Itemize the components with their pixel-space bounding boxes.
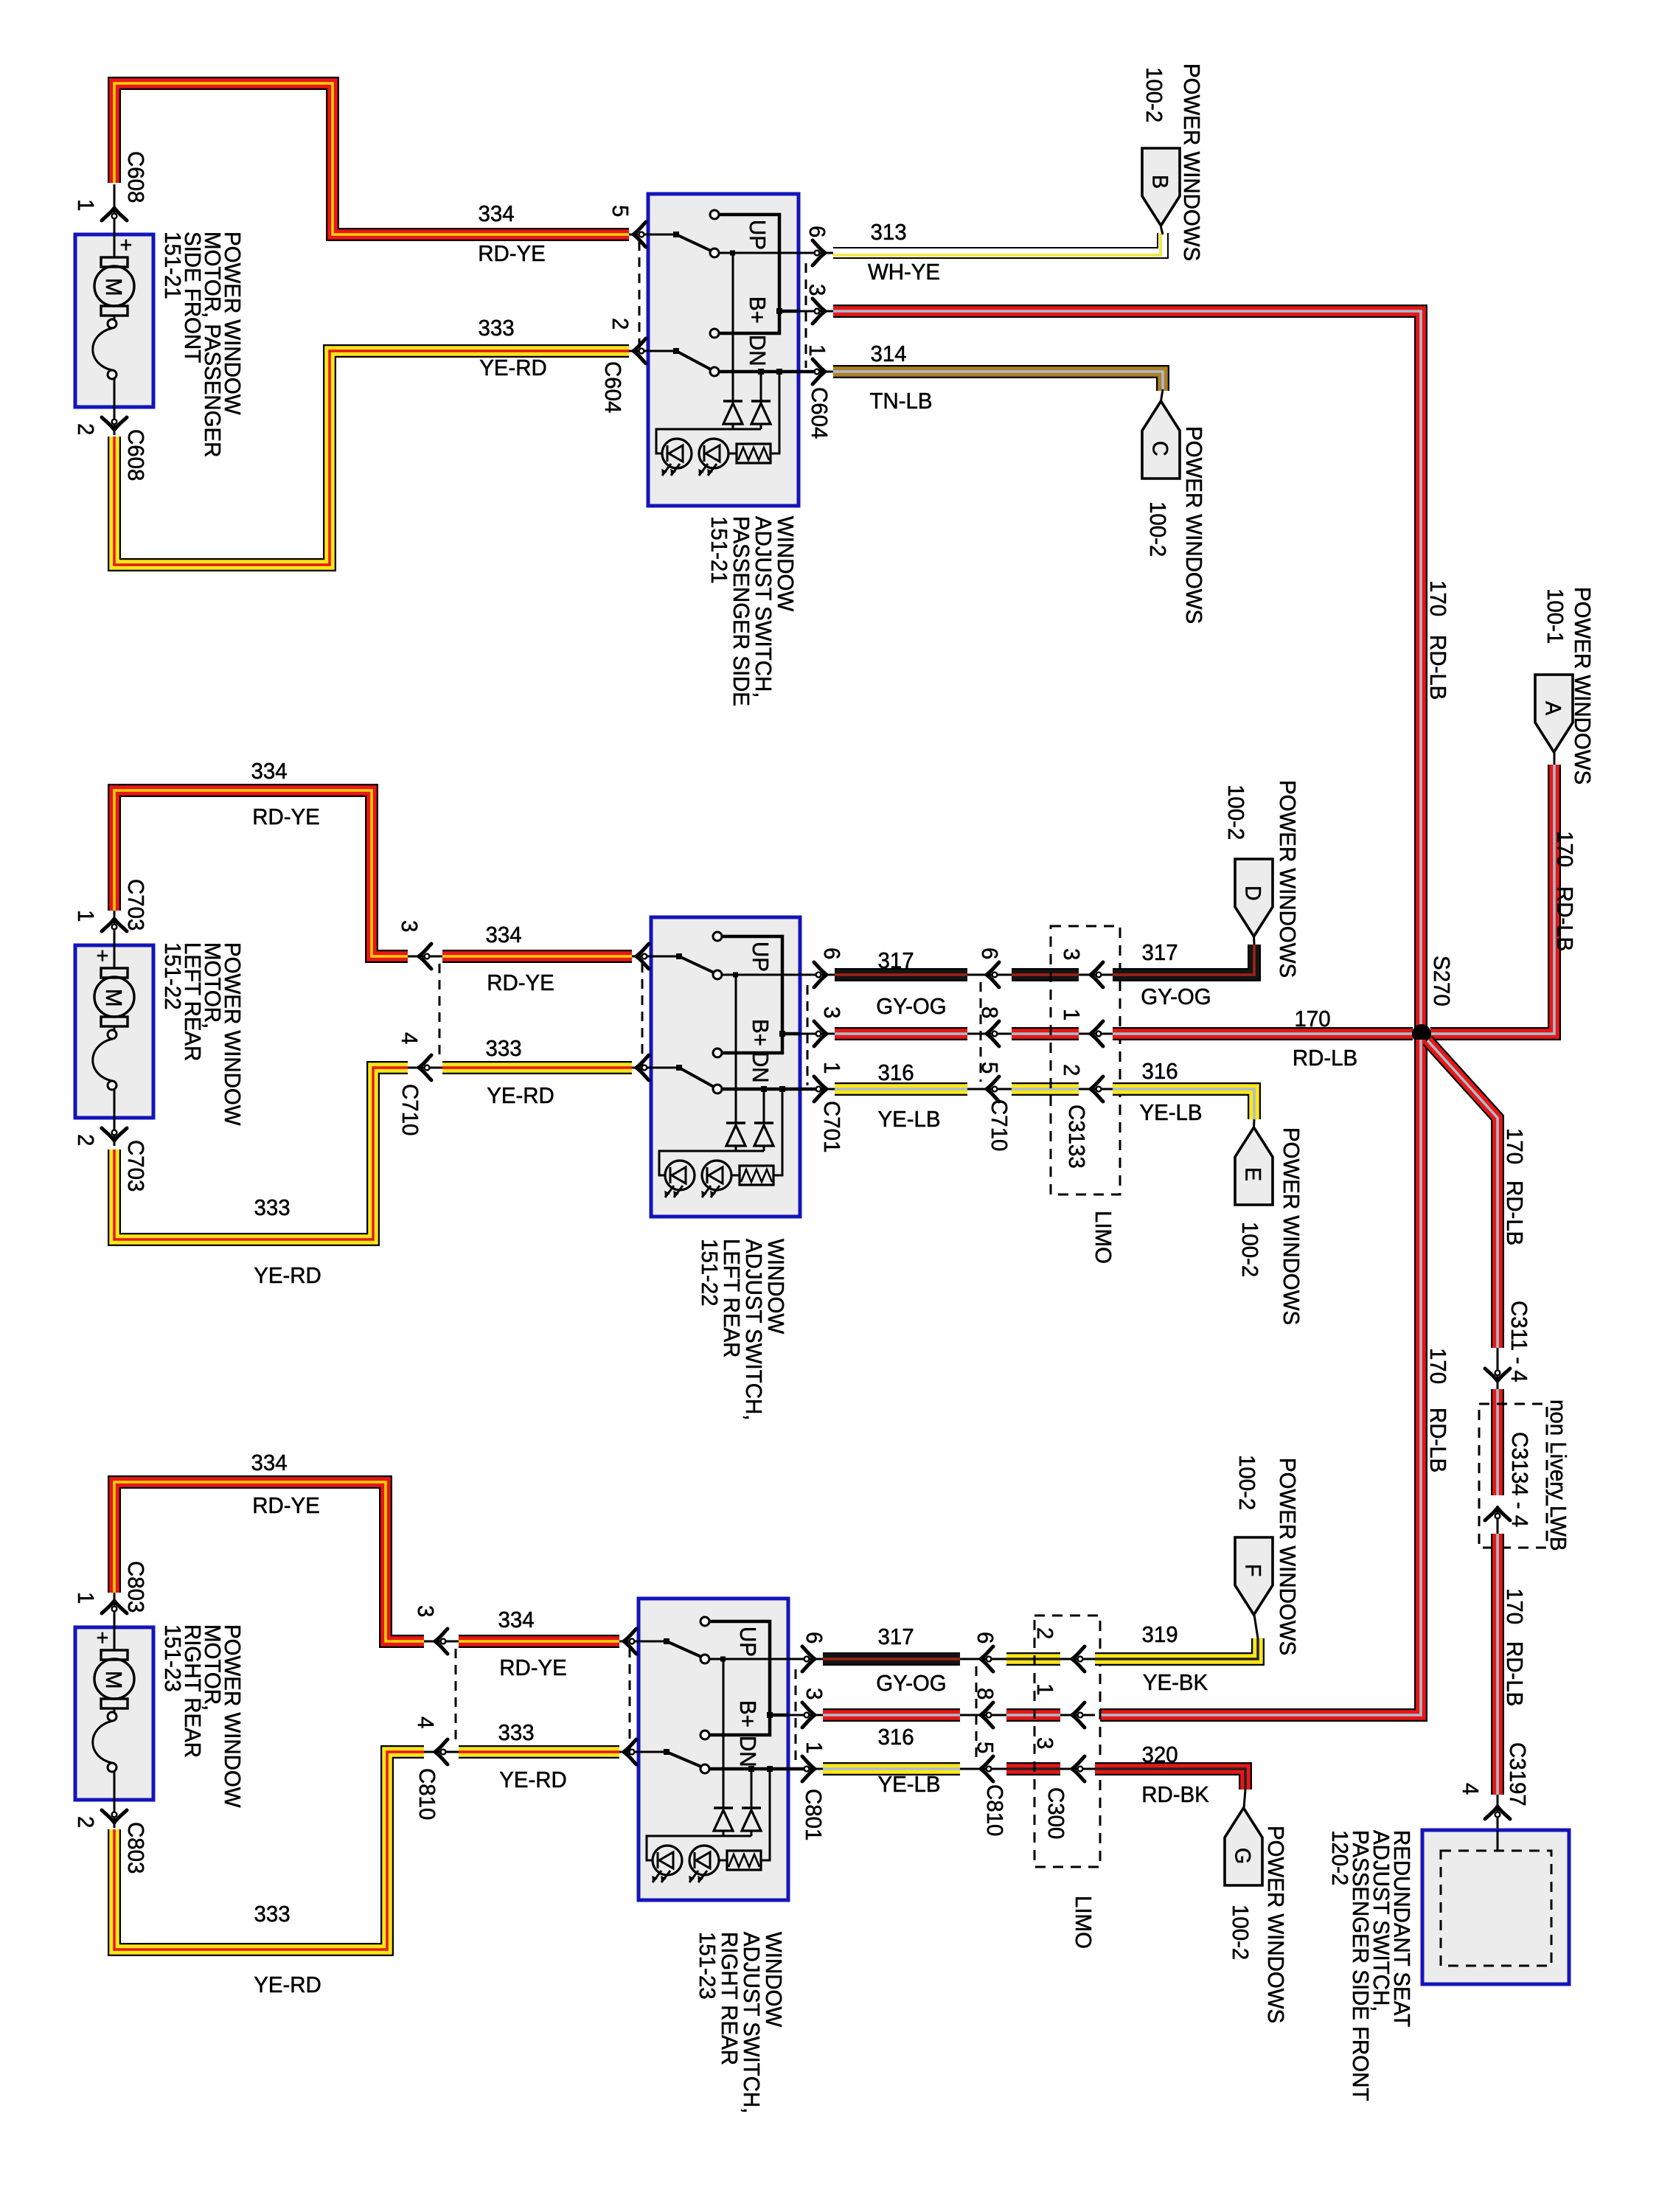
wire 334 color label RD-YE <box>478 241 546 266</box>
wire 333 YE-RD from switch SW2 pin 2 to C710 pin 4 <box>442 1061 632 1074</box>
svg-text:TN-LB: TN-LB <box>869 389 932 414</box>
wire 313 circuit number label <box>870 220 906 245</box>
svg-text:YE-LB: YE-LB <box>877 1772 940 1797</box>
svg-text:1: 1 <box>73 1592 98 1604</box>
inline connector C3133 dashed box <box>1051 926 1120 1194</box>
svg-text:WH-YE: WH-YE <box>868 260 940 285</box>
window adjust switch SW2 left rear box and internals <box>632 917 827 1217</box>
connector C710 label (switch side) <box>987 1099 1012 1151</box>
svg-text:WINDOW: WINDOW <box>761 1932 786 2028</box>
wire 334 circuit number label <box>478 201 514 226</box>
pin 2 arrow SW1 passenger side <box>633 338 646 364</box>
pin 5 label <box>608 205 633 217</box>
svg-text:3: 3 <box>804 284 829 296</box>
C810 pin 5 label <box>973 1742 998 1753</box>
connector C311-4 label <box>1506 1301 1531 1382</box>
wire 170 label on diagonal branch <box>1502 1128 1527 1164</box>
pin 2 label <box>73 1816 98 1828</box>
wire 170 RD-LB from switch SW3 pin 3 to C810 <box>823 1708 960 1722</box>
wire 334 color label RD-YE right of C810 <box>499 1655 567 1680</box>
switch DN label <box>745 335 770 366</box>
svg-text:WINDOW: WINDOW <box>763 1239 788 1335</box>
C810 pin 8 label <box>973 1688 998 1700</box>
pin 3 lead and arrow SW2 left rear <box>800 1021 835 1046</box>
connector C3197 arrow <box>1485 1795 1510 1830</box>
svg-text:LEFT REAR: LEFT REAR <box>719 1239 744 1357</box>
wire 333 color label YE-RD <box>479 355 547 380</box>
C300 pin 1 arrow <box>1060 1703 1095 1728</box>
pin 3 label <box>801 1688 827 1700</box>
svg-text:8: 8 <box>973 1688 998 1700</box>
wire 317 color label GY-OG (SW3) <box>876 1671 946 1696</box>
C810 pin 6 arrow (switch side) <box>960 1646 1006 1672</box>
svg-text:100-2: 100-2 <box>1234 1455 1259 1510</box>
svg-text:RD-YE: RD-YE <box>487 970 554 995</box>
power window motor box 151-22 <box>75 895 153 1146</box>
pin 3 lead and arrow SW1 passenger side <box>799 299 833 324</box>
svg-text:C810: C810 <box>982 1784 1007 1836</box>
svg-text:120-2: 120-2 <box>1327 1830 1352 1885</box>
svg-text:GY-OG: GY-OG <box>876 1671 946 1696</box>
C300 pin 1 label <box>1032 1683 1057 1695</box>
wire 334 label right of C810 <box>498 1607 534 1632</box>
connector D circuit ref 100-2 <box>1223 785 1248 840</box>
pin 1 lead and arrow SW3 right rear <box>788 1756 823 1781</box>
svg-text:5: 5 <box>973 1742 998 1753</box>
C300 pin 2 label <box>1032 1627 1057 1639</box>
C710 pin 4 label <box>397 1032 422 1044</box>
svg-text:6: 6 <box>973 1632 998 1644</box>
wire 334 label (motor M3 run) <box>251 1450 287 1475</box>
svg-text:3: 3 <box>1032 1737 1057 1749</box>
svg-text:151-21: 151-21 <box>160 232 185 299</box>
connector D destination label POWER WINDOWS <box>1275 780 1300 978</box>
svg-text:C801: C801 <box>801 1789 826 1840</box>
C300 pin 3 arrow <box>1060 1756 1095 1781</box>
inline connector C810 pin 3 arrow <box>424 1629 459 1654</box>
lead from wire 314 to connector C <box>1161 389 1164 401</box>
pin 1 arrow at motor top <box>102 208 127 220</box>
connector C300 label <box>1043 1787 1068 1839</box>
svg-text:POWER WINDOWS: POWER WINDOWS <box>1263 1826 1288 2023</box>
svg-text:170: 170 <box>1502 1128 1527 1164</box>
svg-text:C710: C710 <box>987 1099 1012 1151</box>
wire 316 color label YE-LB right of C3133 <box>1139 1100 1202 1125</box>
svg-text:1: 1 <box>1032 1683 1057 1695</box>
connector C703 label top <box>123 879 148 931</box>
C3133 pin 3 label <box>1059 948 1084 960</box>
svg-text:2: 2 <box>73 1816 98 1828</box>
pin 2 arrow at motor bottom <box>102 1128 127 1141</box>
window adjust switch SW1 passenger side box and internals <box>629 194 825 506</box>
svg-text:WINDOW: WINDOW <box>773 516 798 612</box>
C810 pin 3 label <box>413 1605 438 1617</box>
svg-text:151-23: 151-23 <box>695 1932 720 2000</box>
svg-text:319: 319 <box>1141 1622 1178 1647</box>
svg-text:333: 333 <box>478 316 514 341</box>
wire 317 label <box>877 948 914 973</box>
connector C3134-4 arrow <box>1485 1506 1510 1534</box>
svg-text:C604: C604 <box>807 387 832 439</box>
svg-text:YE-RD: YE-RD <box>254 1263 321 1288</box>
pin 5 arrow SW2 left rear <box>636 944 649 969</box>
off-page connector F (POWER WINDOWS 100-2) <box>1235 1537 1273 1615</box>
power window motor box 151-21 <box>75 184 153 435</box>
pin 6 lead and arrow SW1 passenger side <box>799 240 833 265</box>
wire 317 GY-OG between C710 and C3133 <box>1012 968 1079 981</box>
svg-text:DN: DN <box>745 335 770 366</box>
wire 313 WH-YE from switch SW1 pin 6 to connector B <box>833 233 1163 255</box>
pin 1 label <box>73 1592 98 1604</box>
connector C803 label bottom <box>123 1822 148 1874</box>
svg-text:333: 333 <box>254 1902 290 1927</box>
connector E destination label POWER WINDOWS <box>1279 1127 1304 1325</box>
svg-text:M: M <box>101 989 126 1007</box>
svg-text:YE-LB: YE-LB <box>877 1107 940 1132</box>
svg-text:C3134 - 4: C3134 - 4 <box>1507 1432 1532 1527</box>
wire 334 color label RD-YE (motor M2 run) <box>252 804 320 829</box>
C710 pin 8 arrow <box>967 1021 1012 1046</box>
C810 pin 4 label <box>413 1717 438 1728</box>
svg-text:UP: UP <box>745 220 770 250</box>
splice S270 <box>1412 1024 1431 1043</box>
svg-text:RD-LB: RD-LB <box>1552 886 1577 951</box>
wire 334 RD-YE from motor M1 pin 1 to switch pin 5 <box>114 83 629 234</box>
svg-text:UP: UP <box>748 942 773 972</box>
connector B destination label POWER WINDOWS <box>1179 63 1204 261</box>
off-page connector B (POWER WINDOWS 100-2) <box>1142 148 1180 226</box>
pin 3 label <box>804 284 829 296</box>
svg-text:334: 334 <box>251 1450 287 1475</box>
pin 2 arrow at motor bottom <box>102 1810 127 1823</box>
svg-text:POWER WINDOWS: POWER WINDOWS <box>1279 1127 1304 1325</box>
connector C3197 pin 4 label <box>1458 1783 1483 1795</box>
wire 317 color label GY-OG right of C3133 <box>1141 984 1211 1009</box>
off-page connector C (POWER WINDOWS 100-2) <box>1142 401 1180 479</box>
svg-text:2: 2 <box>608 318 633 330</box>
C710 pin 6 arrow (switch side) <box>967 962 1012 987</box>
svg-text:3: 3 <box>1059 948 1084 960</box>
pin 6 lead and arrow SW3 right rear <box>788 1646 823 1672</box>
connector C608 label bottom <box>123 429 148 481</box>
wire 170 RD-LB from splice S270 down to C300 pin 1 row <box>1100 1040 1421 1715</box>
svg-text:D: D <box>1240 886 1265 901</box>
pin 1 lead and arrow SW1 passenger side <box>799 359 833 384</box>
svg-text:A: A <box>1540 701 1565 715</box>
wire 170 color label RD-LB on diagonal branch <box>1502 1180 1527 1245</box>
svg-text:C604: C604 <box>600 361 625 413</box>
svg-text:100-2: 100-2 <box>1223 785 1248 840</box>
inline connector C710 dashed line (switch side) <box>980 982 982 1082</box>
wire 320 RD-BK between C810 and C300 <box>1006 1762 1060 1775</box>
C3133 pin 1 label <box>1059 1009 1084 1020</box>
connector C604 label left <box>600 361 625 413</box>
wire 334 label (motor M2 run) <box>251 759 287 784</box>
svg-text:100-1: 100-1 <box>1543 588 1568 644</box>
connector dashed line right of SW2 left rear <box>807 985 809 1085</box>
splice S270 label <box>1429 956 1454 1006</box>
pin 1 label <box>73 199 98 211</box>
svg-text:RD-LB: RD-LB <box>1502 1180 1527 1245</box>
wire 319 color label YE-BK <box>1143 1670 1208 1695</box>
svg-text:RD-LB: RD-LB <box>1425 1408 1450 1472</box>
svg-text:C608: C608 <box>123 151 148 203</box>
pin 2 arrow SW2 left rear <box>636 1055 649 1080</box>
wire 333 label right of C810 <box>498 1720 534 1745</box>
wire 333 YE-RD from switch SW3 pin 2 to C810 pin 4 <box>459 1745 619 1759</box>
connector B circuit ref 100-2 <box>1141 67 1166 122</box>
C710 pin 6 label <box>977 947 1002 959</box>
pin 2 label <box>73 423 98 435</box>
inline connector C300 dashed box <box>1034 1615 1100 1867</box>
pin 6 label <box>804 226 829 237</box>
switch UP label <box>745 220 770 250</box>
C300 pin 2 arrow <box>1060 1646 1095 1672</box>
svg-text:4: 4 <box>1458 1783 1483 1795</box>
svg-text:2: 2 <box>73 1134 98 1146</box>
svg-text:RD-YE: RD-YE <box>499 1655 567 1680</box>
wire 333 color label YE-RD (motor M2 run) <box>254 1263 321 1288</box>
wire 317 label (SW3) <box>877 1624 914 1649</box>
wire 316 YE-LB from C3133 pin 2 to connector E <box>1113 1089 1254 1119</box>
svg-text:C703: C703 <box>123 1140 148 1192</box>
svg-text:C: C <box>1147 441 1172 456</box>
svg-text:YE-RD: YE-RD <box>499 1767 567 1792</box>
connector dashed line left of SW1 passenger side <box>639 241 641 358</box>
svg-text:E: E <box>1240 1167 1265 1181</box>
connector F destination label POWER WINDOWS <box>1275 1458 1300 1655</box>
svg-text:6: 6 <box>819 947 844 959</box>
svg-text:1: 1 <box>804 344 829 356</box>
svg-text:POWER WINDOWS: POWER WINDOWS <box>1275 1458 1300 1655</box>
svg-text:313: 313 <box>870 220 906 245</box>
wire 333 color label YE-RD (motor M3 run) <box>254 1972 321 1997</box>
svg-text:2: 2 <box>73 423 98 435</box>
svg-text:333: 333 <box>485 1036 521 1061</box>
connector dashed line right of SW3 right rear <box>795 1669 797 1765</box>
off-page connector A (POWER WINDOWS 100-1) <box>1535 675 1573 752</box>
lead from wire 313 to connector B <box>1161 227 1164 234</box>
pin 6 label <box>801 1632 827 1644</box>
pin 1 label <box>801 1742 827 1753</box>
svg-text:C311 - 4: C311 - 4 <box>1506 1301 1531 1382</box>
connector G circuit ref 100-2 <box>1228 1905 1253 1960</box>
connector C destination label POWER WINDOWS <box>1181 426 1206 624</box>
svg-text:RIGHT REAR: RIGHT REAR <box>717 1932 742 2065</box>
svg-text:316: 316 <box>877 1725 914 1750</box>
wire 333 circuit number label <box>478 316 514 341</box>
svg-text:4: 4 <box>413 1717 438 1728</box>
wire 334 RD-YE from C810 pin 3 to switch SW3 pin 5 <box>459 1635 619 1648</box>
pin 1 label <box>73 910 98 922</box>
wire 320 RD-BK from C300 pin 3 to connector G <box>1095 1769 1245 1790</box>
wire 334 RD-YE from motor M3 pin 1 to inline connector C810 pin 3 <box>114 1482 424 1641</box>
svg-text:POWER WINDOWS: POWER WINDOWS <box>1275 780 1300 978</box>
wire 316 label (SW3) <box>877 1725 914 1750</box>
switch UP label <box>735 1627 760 1657</box>
wire 316 YE-LB from switch SW3 pin 1 to C810 <box>823 1762 960 1775</box>
connector A circuit ref 100-1 <box>1543 588 1568 644</box>
C810 pin 8 arrow <box>960 1703 1006 1728</box>
C300 pin 3 label <box>1032 1737 1057 1749</box>
svg-text:C300: C300 <box>1043 1787 1068 1839</box>
svg-text:RD-LB: RD-LB <box>1502 1641 1527 1706</box>
wire 333 color label YE-RD right of C710 <box>487 1083 554 1108</box>
wire 170 RD-LB between C710 and C3133 <box>1012 1027 1079 1040</box>
svg-text:RD-YE: RD-YE <box>252 804 320 829</box>
wire 170 RD-LB diagonal branch from splice S270 <box>1427 1040 1498 1348</box>
wire 316 YE-LB between C710 and C3133 <box>1012 1082 1079 1096</box>
wire 316 color label YE-LB <box>877 1107 940 1132</box>
svg-text:GY-OG: GY-OG <box>876 994 946 1019</box>
connector G destination label POWER WINDOWS <box>1263 1826 1288 2023</box>
svg-text:316: 316 <box>877 1060 914 1085</box>
inline connector C810 pin 4 arrow <box>424 1739 459 1764</box>
C3133 LIMO label <box>1091 1211 1116 1264</box>
svg-text:LIMO: LIMO <box>1091 1211 1116 1264</box>
connector C608 label top <box>123 151 148 203</box>
svg-text:6: 6 <box>801 1632 827 1644</box>
svg-text:317: 317 <box>877 1624 914 1649</box>
inline connector C710 pin 3 arrow <box>408 944 442 969</box>
switch name label SW2 left rear <box>697 1239 788 1420</box>
connector C801 label right <box>801 1789 826 1840</box>
wire 320 color label RD-BK <box>1141 1782 1209 1807</box>
svg-text:170: 170 <box>1294 1006 1330 1032</box>
svg-text:100-2: 100-2 <box>1141 67 1166 122</box>
svg-text:151-22: 151-22 <box>697 1239 722 1307</box>
connector E circuit ref 100-2 <box>1237 1222 1262 1277</box>
svg-text:non Livery LWB: non Livery LWB <box>1545 1399 1571 1551</box>
svg-text:6: 6 <box>804 226 829 237</box>
wire 334 color label RD-YE right of C710 <box>487 970 554 995</box>
svg-text:6: 6 <box>977 947 1002 959</box>
lead from wire 317 to connector D <box>1253 936 1256 945</box>
connector C3134-4 dashed box <box>1479 1404 1547 1548</box>
wire 317 GY-OG from C3133 pin 3 to connector D <box>1113 945 1254 975</box>
svg-text:5: 5 <box>608 205 633 217</box>
svg-text:4: 4 <box>397 1032 422 1044</box>
svg-text:334: 334 <box>485 922 521 947</box>
svg-text:317: 317 <box>1141 940 1178 965</box>
svg-text:+: + <box>97 944 109 968</box>
svg-text:C803: C803 <box>123 1822 148 1874</box>
svg-text:2: 2 <box>1059 1064 1084 1076</box>
wire 333 YE-RD from C710 pin 4 to motor M2 pin 2 <box>114 1068 408 1239</box>
wire 319 label <box>1141 1622 1178 1647</box>
inline connector C710 pin 4 arrow <box>408 1055 442 1080</box>
non Livery LWB label <box>1545 1399 1571 1551</box>
svg-text:C703: C703 <box>123 879 148 931</box>
pin 2 arrow SW3 right rear <box>624 1739 636 1764</box>
connector C circuit ref 100-2 <box>1145 501 1170 557</box>
wire 170 RD-LB from connector A to splice S270 <box>1430 765 1554 1034</box>
wire 319 YE-BK from C300 pin 2 to connector F <box>1095 1638 1258 1659</box>
wire 317 GY-OG from switch SW2 pin 6 to C710 <box>835 968 967 981</box>
motor name label <box>160 232 245 457</box>
svg-text:314: 314 <box>870 341 906 366</box>
svg-text:1: 1 <box>801 1742 827 1753</box>
svg-text:1: 1 <box>73 910 98 922</box>
wire 316 color label YE-LB (SW3) <box>877 1772 940 1797</box>
svg-text:170: 170 <box>1502 1588 1527 1624</box>
connector C311-4 arrow <box>1485 1348 1510 1389</box>
wire 314 circuit number label <box>870 341 906 366</box>
wire 316 label right of C3133 <box>1141 1059 1178 1084</box>
connector C3134-4 label <box>1507 1432 1532 1527</box>
redundant seat adjust switch box <box>1422 1830 1569 1984</box>
pin 1 lead and arrow SW2 left rear <box>800 1077 835 1102</box>
pin 1 arrow at motor top <box>102 919 127 931</box>
svg-text:YE-RD: YE-RD <box>487 1083 554 1108</box>
svg-text:POWER WINDOWS: POWER WINDOWS <box>1181 426 1206 624</box>
wire 316 YE-LB from switch SW2 pin 1 to C710 <box>835 1082 967 1096</box>
switch name label SW3 right rear <box>695 1932 786 2113</box>
wire 317 color label GY-OG <box>876 994 946 1019</box>
wire 317 label right of C3133 <box>1141 940 1178 965</box>
svg-text:C3133: C3133 <box>1064 1105 1089 1169</box>
svg-text:1: 1 <box>819 1062 844 1074</box>
off-page connector D (POWER WINDOWS 100-2) <box>1235 859 1273 936</box>
svg-text:5: 5 <box>977 1062 1002 1074</box>
wire 333 YE-RD from switch pin 2 to motor M1 pin 2 <box>114 351 629 565</box>
svg-text:ADJUST SWITCH,: ADJUST SWITCH, <box>741 1239 766 1420</box>
svg-text:170: 170 <box>1425 1348 1450 1384</box>
wire 170 label (row to splice) <box>1294 1006 1330 1032</box>
svg-text:G: G <box>1230 1848 1254 1864</box>
wire 170 color label RD-LB near A drop <box>1552 886 1577 951</box>
switch DN label <box>735 1736 760 1767</box>
svg-text:170: 170 <box>1425 580 1450 616</box>
svg-text:C608: C608 <box>123 429 148 481</box>
svg-text:S270: S270 <box>1429 956 1454 1006</box>
wire 333 label right of C710 <box>485 1036 521 1061</box>
C710 pin 8 label <box>977 1006 1002 1018</box>
wire 170 RD-LB from switch SW2 pin 3 to C710 <box>835 1027 967 1040</box>
svg-text:DN: DN <box>748 1051 773 1083</box>
pin 2 label <box>608 318 633 330</box>
wire 170 RD-LB between C311-4 and C3134-4 <box>1491 1389 1504 1495</box>
wire 334 RD-YE from C710 pin 3 to switch SW2 pin 5 <box>442 950 632 963</box>
motor + polarity label <box>97 1626 109 1650</box>
pin 3 label <box>819 1006 844 1018</box>
wire 334 RD-YE from motor M2 pin 1 to inline connector C710 pin 3 <box>114 790 408 956</box>
connector C701 label right <box>819 1101 844 1152</box>
svg-text:YE-RD: YE-RD <box>254 1972 321 1997</box>
connector C3133 label <box>1064 1105 1089 1169</box>
C810 pin 6 label <box>973 1632 998 1644</box>
connector C604 label right <box>807 387 832 439</box>
connector dashed line right of SW1 passenger side <box>805 263 807 368</box>
wire 170 RD-LB between C810 and C300 <box>1006 1708 1060 1722</box>
svg-text:RD-BK: RD-BK <box>1141 1782 1209 1807</box>
svg-text:151-23: 151-23 <box>160 1624 185 1692</box>
svg-text:317: 317 <box>877 948 914 973</box>
C3133 pin 3 arrow <box>1079 962 1113 987</box>
wire 170 RD-LB from C3134-4 down to C3197 <box>1491 1534 1504 1795</box>
connector A destination label POWER WINDOWS <box>1570 587 1595 785</box>
svg-text:M: M <box>101 1671 126 1689</box>
svg-text:LIMO: LIMO <box>1071 1896 1096 1949</box>
C300 LIMO label <box>1071 1896 1096 1949</box>
svg-text:C701: C701 <box>819 1101 844 1152</box>
svg-text:UP: UP <box>735 1627 760 1657</box>
wire 170 color label RD-LB below splice <box>1425 1408 1450 1472</box>
svg-text:RD-LB: RD-LB <box>1293 1046 1357 1071</box>
switch B+ label <box>745 296 770 324</box>
wire 170 label (vertical) <box>1425 580 1450 616</box>
C710 pin 5 label <box>977 1062 1002 1074</box>
